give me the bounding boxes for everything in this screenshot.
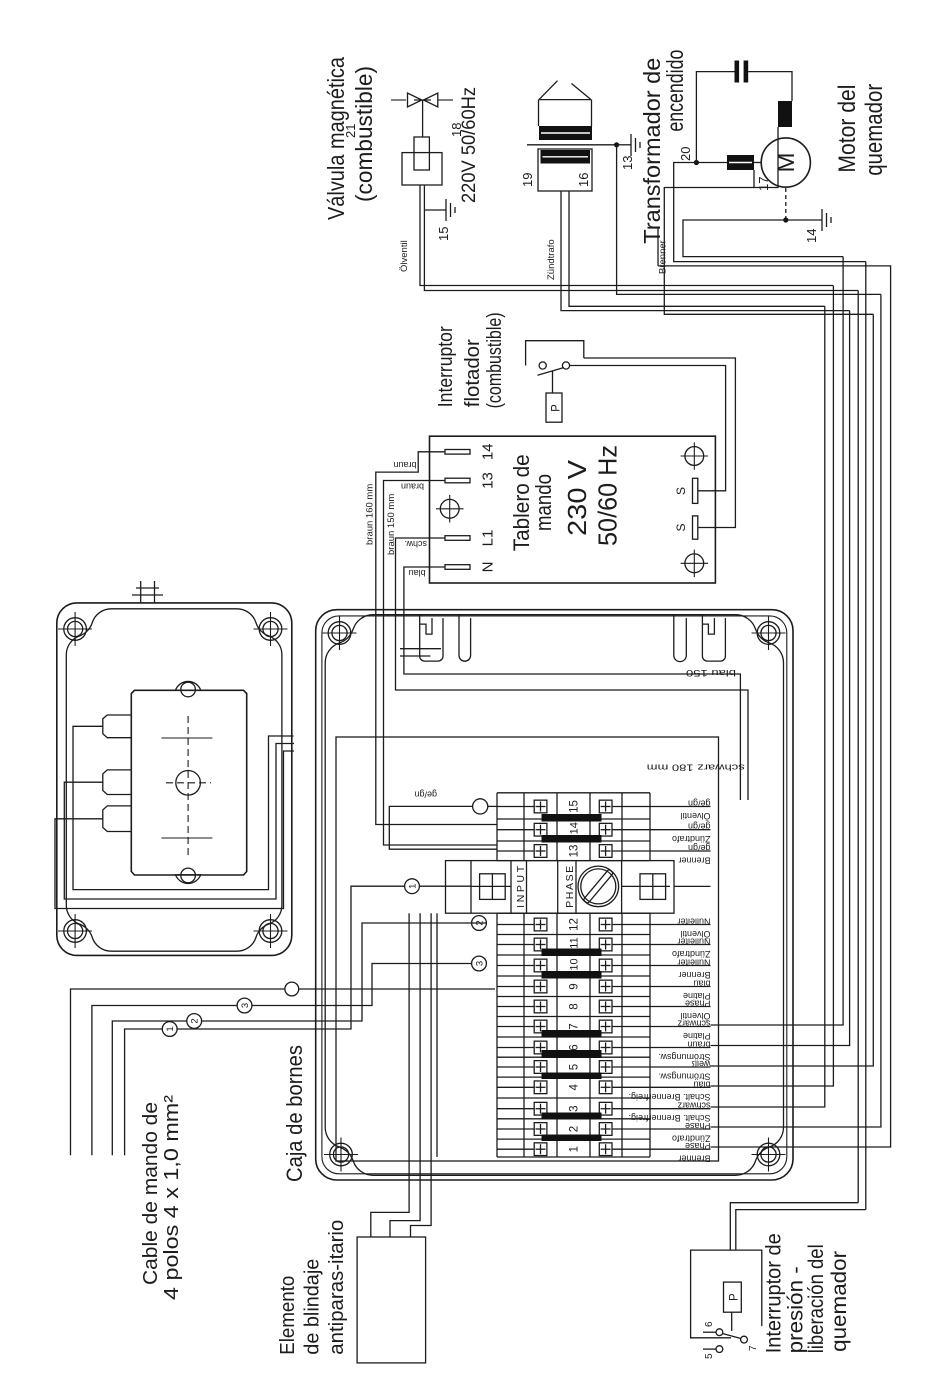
PHASE rotary selector dial xyxy=(578,866,619,907)
capacitor branch wire upper xyxy=(696,72,734,163)
black jumper bar 5/4 xyxy=(542,1073,602,1080)
node 20 junction dot xyxy=(694,160,699,165)
terminal-side marker circled 2 xyxy=(472,916,487,931)
motor shaft dashed line xyxy=(785,187,787,220)
terminal 11 screw top xyxy=(534,938,547,951)
svg-text:S: S xyxy=(674,523,688,531)
svg-text:mando: mando xyxy=(531,474,556,531)
svg-text:Brenner: Brenner xyxy=(678,1154,710,1164)
terminal 3 top stub wire xyxy=(497,1108,534,1110)
bus wire pressure 2 to motor supply xyxy=(865,262,867,1210)
terminal 14 bottom stub wire xyxy=(612,829,650,831)
svg-text:Cable de mando de: Cable de mando de xyxy=(140,1102,162,1285)
svg-text:10: 10 xyxy=(569,958,581,970)
wire from prong 1 xyxy=(73,726,294,889)
terminal 6 screw bottom xyxy=(599,1041,612,1054)
terminal 11 bottom stub wire xyxy=(612,944,650,946)
terminal 11 top stub wire xyxy=(497,944,534,946)
connector right mounting ear xyxy=(176,681,201,690)
terminal 3 screw top xyxy=(534,1102,547,1115)
aux winding to motor wire xyxy=(754,127,778,188)
svg-text:14: 14 xyxy=(569,822,581,834)
small box inner wall xyxy=(66,609,282,951)
svg-text:12: 12 xyxy=(569,918,581,931)
svg-text:quemador: quemador xyxy=(828,1251,851,1352)
terminal slot 14 xyxy=(445,450,470,455)
terminal 2 screw bottom xyxy=(599,1123,612,1136)
cable core 2 continuation xyxy=(202,923,487,1021)
terminal 14 screw top xyxy=(534,823,547,836)
solenoid coil core rect xyxy=(414,137,429,170)
terminal 13 top stub wire xyxy=(497,850,534,852)
svg-text:PHASE: PHASE xyxy=(564,866,576,908)
svg-text:20: 20 xyxy=(678,147,693,161)
terminal 9 screw bottom xyxy=(599,980,612,993)
trafo primary winding white stripe xyxy=(543,156,589,158)
shield wire bus continuation xyxy=(436,913,438,1157)
mounting keyhole slot plain lower xyxy=(674,615,687,662)
svg-text:220V 50/60Hz: 220V 50/60Hz xyxy=(459,87,480,203)
INPUT screw box xyxy=(480,874,506,900)
float switch contact upper xyxy=(539,362,546,369)
big box middle wall line xyxy=(322,616,787,1174)
svg-text:braun 150 mm: braun 150 mm xyxy=(386,494,397,555)
capacitor branch wire lower xyxy=(748,72,792,101)
svg-text:3: 3 xyxy=(475,961,486,966)
terminal 5 lead wire below strip xyxy=(650,1066,711,1068)
connector left mounting ear xyxy=(176,875,201,884)
terminal 10 screw bottom xyxy=(599,959,612,972)
terminal 6 lead wire below strip xyxy=(650,1047,711,1049)
motor ground symbol xyxy=(822,209,831,231)
svg-text:Ölventil: Ölventil xyxy=(680,811,710,821)
trafo primary box xyxy=(538,149,592,191)
pressure switch blade xyxy=(723,1334,741,1339)
svg-text:blau: blau xyxy=(409,568,426,578)
svg-text:230 V: 230 V xyxy=(562,459,592,536)
Brenner double wire b riser xyxy=(664,188,873,315)
terminal 1 screw bottom xyxy=(599,1143,612,1156)
svg-text:5: 5 xyxy=(704,1353,715,1359)
connector body xyxy=(131,690,246,875)
black jumper bar 6/5 xyxy=(542,1050,602,1058)
pressure switch box xyxy=(691,1250,762,1338)
svg-text:ge/gn: ge/gn xyxy=(688,799,711,809)
svg-text:7: 7 xyxy=(748,1345,759,1351)
svg-text:8: 8 xyxy=(569,1003,581,1009)
terminal 4 top stub wire xyxy=(497,1086,534,1088)
bus wire to motor neutral xyxy=(711,257,844,1025)
svg-text:17: 17 xyxy=(756,177,771,191)
big box screw top-right xyxy=(323,616,357,650)
svg-text:Schalt. Brennerfreig.: Schalt. Brennerfreig. xyxy=(628,1092,710,1102)
svg-text:de blindaje: de blindaje xyxy=(302,1259,324,1355)
svg-text:braun: braun xyxy=(401,482,424,492)
ge/gn ring to strip stub xyxy=(488,805,497,807)
terminal 4 lead wire below strip xyxy=(650,1086,711,1088)
valve wire a xyxy=(420,185,833,286)
strip segment B frame xyxy=(496,913,498,1157)
shield wire 3 xyxy=(411,913,432,1237)
mounting keyhole slot plain upper xyxy=(459,615,471,662)
pressure switch stem xyxy=(731,1312,733,1331)
terminal 4 screw top xyxy=(534,1081,547,1094)
screw bottom-right of small box xyxy=(254,612,288,646)
pressure switch wire 2 xyxy=(736,1210,866,1251)
cable core PE marker circle xyxy=(285,982,299,996)
svg-text:13: 13 xyxy=(620,156,635,170)
cable marker circled 2 xyxy=(187,1014,202,1029)
svg-text:braun: braun xyxy=(393,460,416,470)
svg-text:1: 1 xyxy=(408,884,419,889)
terminal 3 screw bottom xyxy=(599,1102,612,1115)
svg-text:Motor del: Motor del xyxy=(834,85,861,173)
svg-text:Caja de bornes: Caja de bornes xyxy=(282,1045,307,1182)
motor ground stem xyxy=(786,219,822,221)
svg-text:antiparas-itario: antiparas-itario xyxy=(326,1220,348,1355)
connector prong 1 (right) xyxy=(103,715,132,738)
wire stubs under keyhole slot xyxy=(400,648,441,650)
cable core PE continuation into box xyxy=(299,988,495,990)
connector center hole xyxy=(176,771,201,796)
terminal 15 bottom stub wire xyxy=(612,806,650,808)
terminal 10 top stub wire xyxy=(497,965,534,967)
terminal 14 lead wire below strip xyxy=(650,829,711,831)
PHASE section divider lines xyxy=(470,861,472,914)
capacitor plate right xyxy=(735,61,740,83)
main winding white stripe xyxy=(729,162,752,164)
black jumper bar 15/14 xyxy=(542,814,602,822)
shield wire 2 xyxy=(390,913,420,1237)
terminal 12 bottom stub wire xyxy=(612,924,650,926)
float switch bracket xyxy=(526,341,584,366)
panel screw bottom-left xyxy=(681,550,708,577)
svg-text:schw.: schw. xyxy=(404,539,427,549)
svg-text:1: 1 xyxy=(165,1026,176,1031)
terminal 8 screw bottom xyxy=(599,1000,612,1013)
svg-text:3: 3 xyxy=(240,1003,251,1008)
terminal 3 lead wire below strip xyxy=(650,1108,711,1110)
cable core wire 1 xyxy=(125,1029,163,1155)
auxiliary winding bar xyxy=(778,101,792,127)
black jumper bar 3/2 xyxy=(542,1113,602,1120)
terminal 15 top stub wire xyxy=(497,806,534,808)
svg-text:L1: L1 xyxy=(480,530,497,547)
terminal 15 screw bottom xyxy=(599,800,612,813)
connector dashed axis horizontal xyxy=(187,713,189,855)
svg-text:Elemento: Elemento xyxy=(277,1276,299,1355)
svg-text:liberación del: liberación del xyxy=(805,1244,828,1353)
wire 14 (braun 160 mm) xyxy=(376,452,497,825)
terminal 2 screw top xyxy=(534,1123,547,1136)
big box screw bottom-right xyxy=(752,616,786,650)
wire from prong 2 xyxy=(64,744,294,900)
float switch P box xyxy=(546,393,562,422)
svg-text:Nulleiter: Nulleiter xyxy=(677,917,710,927)
svg-text:6: 6 xyxy=(569,1044,581,1050)
svg-text:2: 2 xyxy=(190,1018,201,1023)
svg-text:13: 13 xyxy=(569,845,581,858)
black jumper bar 2/1 xyxy=(542,1135,602,1142)
supply stub tick marks xyxy=(132,594,163,596)
svg-text:50/60 Hz: 50/60 Hz xyxy=(593,445,623,546)
strip cell borders xyxy=(497,1156,650,1158)
screw bottom-left of small box xyxy=(254,914,288,948)
ge/gn ring wire upper branch xyxy=(389,806,496,849)
wire winding to motor xyxy=(754,162,761,164)
terminal 13 lead wire below strip xyxy=(650,850,711,852)
terminal 15 screw top xyxy=(534,800,547,813)
connector left ear hole xyxy=(181,868,196,883)
small box outer wall xyxy=(57,603,292,956)
trafo electrode lower xyxy=(572,84,592,100)
node 20 to winding wire xyxy=(696,162,727,164)
trafo electrode frame top xyxy=(538,100,540,126)
trafo electrode base xyxy=(539,99,592,101)
float switch actuator stem xyxy=(552,371,554,393)
wire 13 (braun 150 mm) xyxy=(384,481,498,846)
control panel box xyxy=(430,436,716,583)
svg-text:S: S xyxy=(674,487,688,495)
connector prong 3 (left) xyxy=(103,806,132,832)
svg-text:M: M xyxy=(773,153,800,173)
connector prong 2 (middle) xyxy=(103,770,132,795)
svg-text:quemador: quemador xyxy=(861,84,888,176)
svg-text:P: P xyxy=(729,1293,741,1301)
svg-text:6: 6 xyxy=(704,1321,715,1327)
motor neutral wire xyxy=(683,220,843,257)
terminal 14 screw bottom xyxy=(599,823,612,836)
svg-text:4: 4 xyxy=(569,1084,581,1091)
terminal 6 top stub wire xyxy=(497,1047,534,1049)
screw top-left of small box xyxy=(58,914,92,948)
mounting keyhole slot E-shaped upper xyxy=(420,615,443,662)
terminal 8 top stub wire xyxy=(497,1006,534,1008)
terminal 13 bottom stub wire xyxy=(612,850,650,852)
connector right ear hole xyxy=(181,682,196,697)
trafo core ground junction dot xyxy=(614,142,619,147)
big box inner wall xyxy=(325,615,783,1176)
terminal 1 top stub wire xyxy=(497,1148,534,1150)
terminal 7 screw bottom xyxy=(599,1020,612,1033)
bus wire t2 to trafo ground xyxy=(711,294,881,1127)
terminal 3 bottom stub wire xyxy=(612,1108,650,1110)
valve bowtie lower triangle xyxy=(424,93,438,107)
cable core wire 2 xyxy=(112,1021,187,1155)
terminal 2 top stub wire xyxy=(497,1128,534,1130)
supply stub wires at right of small box xyxy=(140,581,142,603)
cable core 3 continuation xyxy=(252,964,472,1006)
svg-text:Brenner: Brenner xyxy=(678,856,710,866)
svg-text:Interruptor: Interruptor xyxy=(435,326,457,407)
terminal 13 screw top xyxy=(534,845,547,858)
pressure contact 5 xyxy=(716,1346,723,1353)
trafo wire 16 xyxy=(569,191,825,306)
svg-text:Interruptor de: Interruptor de xyxy=(763,1233,786,1353)
terminal 8 screw top xyxy=(534,1000,547,1013)
motor supply wire from node 20 xyxy=(674,163,866,262)
inner mounting plate xyxy=(336,737,719,1161)
svg-text:Strömungsw.: Strömungsw. xyxy=(658,1072,710,1082)
terminal 5 bottom stub wire xyxy=(612,1066,650,1068)
terminal 11 screw bottom xyxy=(599,938,612,951)
svg-text:Válvula magnética: Válvula magnética xyxy=(323,57,349,220)
terminal 9 screw top xyxy=(534,980,547,993)
svg-text:13: 13 xyxy=(480,472,497,489)
svg-text:Ölventil: Ölventil xyxy=(399,240,410,272)
terminal 9 bottom stub wire xyxy=(612,986,650,988)
float switch blade xyxy=(538,368,565,376)
trafo secondary winding bar xyxy=(539,126,592,140)
float switch contact lower xyxy=(562,362,569,369)
svg-text:ge/gn: ge/gn xyxy=(414,790,437,800)
terminal 7 screw top xyxy=(534,1020,547,1033)
svg-text:15: 15 xyxy=(569,800,581,813)
trafo core line xyxy=(527,144,617,146)
svg-text:N: N xyxy=(480,562,497,573)
trafo wire 19 xyxy=(561,191,850,311)
trafo primary winding bar xyxy=(541,150,591,164)
terminal 12 top stub wire xyxy=(497,924,534,926)
panel screw upper xyxy=(436,495,464,523)
svg-text:4 polos 4 x 1,0 mm²: 4 polos 4 x 1,0 mm² xyxy=(161,1095,183,1300)
trafo core ground stem xyxy=(617,144,631,146)
terminal 7 top stub wire xyxy=(497,1026,534,1028)
wire N (blau) to box xyxy=(404,567,741,800)
bus wire to trafo 19 xyxy=(711,311,850,1046)
valve ground symbol xyxy=(446,199,455,221)
cable core wire 3 xyxy=(92,1006,238,1156)
terminal 2 lead wire below strip xyxy=(650,1128,711,1130)
screw top-right of small box xyxy=(58,612,92,646)
valve bowtie upper triangle xyxy=(408,93,422,107)
valve pipe lower thin line xyxy=(439,99,454,101)
trafo electrode frame bottom xyxy=(591,100,593,126)
svg-text:3: 3 xyxy=(569,1105,581,1111)
solenoid body rect xyxy=(402,153,442,185)
svg-text:Strömungsw.: Strömungsw. xyxy=(658,1052,710,1062)
terminal 10 screw top xyxy=(534,959,547,972)
cable core 1 continuation xyxy=(177,886,404,1029)
svg-text:schwarz 180 mm: schwarz 180 mm xyxy=(647,763,745,773)
main winding bar xyxy=(727,155,754,170)
cable marker circled 3 xyxy=(237,998,252,1013)
bus wire t5 to aux winding xyxy=(711,314,874,1066)
wire contact to S slot 1 xyxy=(570,366,726,491)
connector dashed cross right xyxy=(166,737,208,739)
terminal 10 bottom stub wire xyxy=(612,965,650,967)
svg-text:P: P xyxy=(551,404,563,412)
terminal 8 bottom stub wire xyxy=(612,1006,650,1008)
svg-text:7: 7 xyxy=(569,1023,581,1029)
terminal 15 lead wire below strip xyxy=(650,806,711,808)
terminal 1 bottom stub wire xyxy=(612,1148,650,1150)
cable core wire PE (to ring) xyxy=(71,989,286,1155)
valve stem xyxy=(422,100,424,137)
terminal 8 lead wire below strip xyxy=(650,1006,711,1008)
Brenner double wire a xyxy=(657,228,659,266)
bus wire to valve a xyxy=(711,286,834,1086)
pressure contact 7 xyxy=(741,1336,748,1343)
svg-text:1: 1 xyxy=(569,1146,581,1152)
svg-text:Zündtrafo: Zündtrafo xyxy=(672,834,711,844)
terminal 6 bottom stub wire xyxy=(612,1047,650,1049)
ge/gn ring terminal xyxy=(473,799,488,814)
svg-text:5: 5 xyxy=(569,1064,581,1070)
svg-text:Ölventil: Ölventil xyxy=(680,1011,710,1021)
terminal 13 screw bottom xyxy=(599,845,612,858)
capacitor plate left xyxy=(744,61,749,83)
valve wire b xyxy=(424,185,858,291)
svg-text:Ölventil: Ölventil xyxy=(680,929,710,939)
shield wire 1 xyxy=(371,913,409,1237)
pressure contact 6 xyxy=(716,1329,723,1336)
big box outer wall xyxy=(316,610,793,1180)
svg-text:(combustible): (combustible) xyxy=(351,66,377,202)
terminal 1 lead wire below strip xyxy=(650,1148,711,1150)
terminal 2 bottom stub wire xyxy=(612,1128,650,1130)
terminal-side marker circled 1 xyxy=(405,879,420,894)
panel screw bottom-right xyxy=(681,442,708,469)
pressure contact 5 stub xyxy=(703,1348,716,1350)
pressure contact 6 stub xyxy=(703,1331,716,1333)
motor circle xyxy=(761,138,810,187)
terminal 10 lead wire below strip xyxy=(650,965,711,967)
pressure switch wire 1 xyxy=(730,1203,858,1250)
terminal slot N xyxy=(445,565,470,570)
svg-text:16: 16 xyxy=(576,173,591,187)
svg-text:2: 2 xyxy=(569,1126,581,1132)
terminal 7 bottom stub wire xyxy=(612,1026,650,1028)
black jumper bar 10/9 xyxy=(542,971,602,979)
big box screw bottom-left xyxy=(752,1138,786,1172)
terminal 9 lead wire below strip xyxy=(650,986,711,988)
mounting keyhole slot E-shaped lower xyxy=(702,615,725,662)
terminal 5 top stub wire xyxy=(497,1066,534,1068)
terminal 5 screw top xyxy=(534,1061,547,1074)
svg-text:Brenner: Brenner xyxy=(658,240,669,274)
valve pipe upper thin line xyxy=(391,99,406,101)
S terminal slot 2 xyxy=(693,516,698,539)
connector dashed cross left xyxy=(166,837,208,839)
bus wire to trafo 16 xyxy=(711,306,825,1107)
black jumper bar 7/6 xyxy=(542,1030,602,1038)
terminal 1 screw top xyxy=(534,1143,547,1156)
terminal 12 screw bottom xyxy=(599,918,612,931)
wire L1 (schw.) to box xyxy=(396,538,749,800)
PHASE bottom screw box xyxy=(640,874,666,900)
trafo ground wire to bus xyxy=(617,145,881,295)
motor ground junction dot xyxy=(783,217,788,222)
svg-text:Platine: Platine xyxy=(683,1031,711,1041)
black jumper bar 14/13 xyxy=(542,835,602,843)
svg-text:Schalt. Brennerfreig.: Schalt. Brennerfreig. xyxy=(628,1113,710,1123)
trafo electrode upper xyxy=(539,81,558,100)
valve ground branch xyxy=(424,209,446,211)
svg-text:19: 19 xyxy=(520,173,535,187)
svg-text:ge/gn: ge/gn xyxy=(688,822,711,832)
terminal 7 lead wire below strip xyxy=(650,1026,711,1028)
svg-text:14: 14 xyxy=(480,443,497,460)
terminal 4 screw bottom xyxy=(599,1081,612,1094)
svg-text:Zündtrafo: Zündtrafo xyxy=(672,949,711,959)
valve bowtie cross tick xyxy=(414,99,431,101)
bus wire t1 to Brenner xyxy=(658,266,891,1147)
big box screw top-left xyxy=(324,1138,358,1172)
shield element box xyxy=(357,1237,426,1363)
svg-text:blau 150: blau 150 xyxy=(686,668,736,678)
terminal slot L1 xyxy=(445,536,470,541)
